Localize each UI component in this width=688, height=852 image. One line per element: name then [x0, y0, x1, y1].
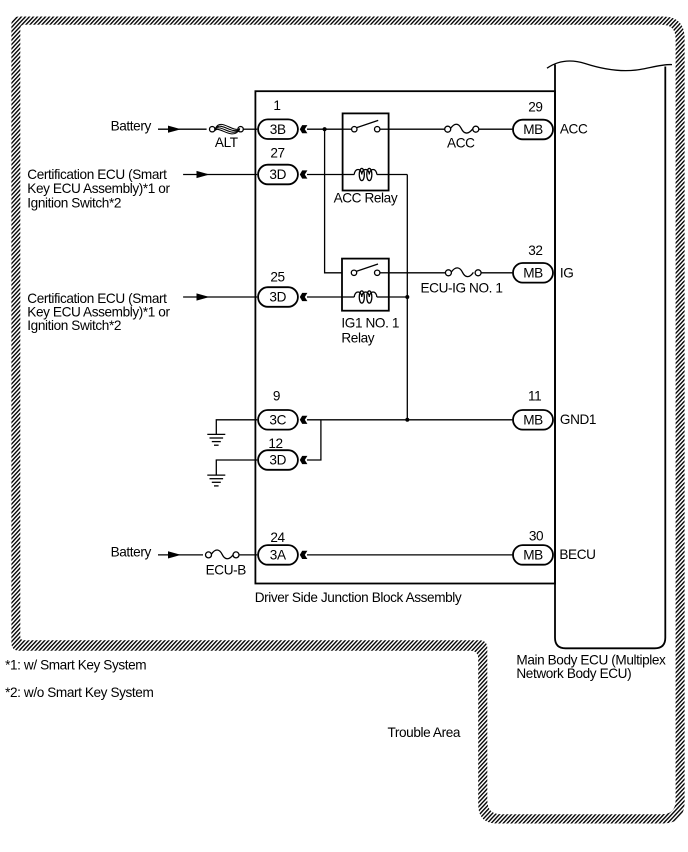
- wire IG1 coil to bus: [389, 296, 408, 298]
- svg-text:9: 9: [273, 388, 280, 403]
- label ALT: [215, 135, 238, 150]
- net label IG: [560, 265, 574, 280]
- svg-text:3B: 3B: [270, 122, 286, 137]
- svg-text:Ignition Switch*2: Ignition Switch*2: [27, 195, 121, 210]
- wire fuse to MB32: [481, 272, 512, 274]
- pin 12: [268, 436, 282, 451]
- connector 3A (24): [258, 545, 298, 565]
- svg-text:3C: 3C: [269, 413, 286, 428]
- svg-text:Trouble Area: Trouble Area: [388, 725, 461, 740]
- ACC relay coil: [343, 168, 389, 180]
- svg-text:3D: 3D: [269, 290, 286, 305]
- Main Body ECU box (wavy top, rounded bottom): [547, 61, 672, 648]
- svg-text:Battery: Battery: [111, 545, 152, 560]
- pin 27: [270, 146, 284, 161]
- svg-text:1: 1: [273, 98, 280, 113]
- label IG1 NO. 1 Relay: [341, 316, 399, 346]
- wire cert1 to 3D: [183, 174, 257, 176]
- fuse ECU-IG NO. 1: [445, 268, 481, 277]
- label Battery (row 6): [111, 545, 152, 560]
- arrow on cert1 wire: [197, 171, 210, 178]
- junction node coil/bus: [405, 295, 409, 299]
- wire 3D25 to IG1 coil: [307, 296, 342, 298]
- fuse ECU-B: [206, 550, 240, 559]
- pin 11: [528, 388, 541, 403]
- relay ACC Relay: [343, 113, 389, 190]
- label Certification ECU block 2: [27, 291, 170, 333]
- net label BECU: [559, 547, 595, 562]
- connector 3C (9): [258, 410, 298, 430]
- note *2: [5, 685, 153, 700]
- pin 30: [529, 529, 544, 544]
- svg-text:Driver Side Junction Block Ass: Driver Side Junction Block Assembly: [255, 590, 462, 605]
- svg-text:MB: MB: [523, 122, 543, 137]
- svg-text:Certification ECU (Smart: Certification ECU (Smart: [27, 167, 167, 182]
- svg-text:ACC Relay: ACC Relay: [334, 190, 398, 205]
- pin 1: [273, 98, 280, 113]
- svg-text:29: 29: [528, 100, 542, 115]
- wire Battery to ALT: [158, 128, 207, 130]
- svg-text:Key ECU Assembly)*1 or: Key ECU Assembly)*1 or: [27, 181, 170, 196]
- label ACC (fuse): [447, 136, 475, 151]
- arrowhead into 3C: [300, 416, 308, 424]
- wire branch to 3D12: [307, 420, 321, 460]
- junction node on 3B wire: [323, 127, 327, 131]
- svg-text:MB: MB: [523, 548, 543, 563]
- label ECU-IG NO. 1: [421, 281, 503, 296]
- connector 3D (12): [258, 450, 298, 470]
- fuse ACC: [445, 124, 479, 133]
- arrowhead into 3D27: [300, 170, 308, 178]
- pin 32: [528, 243, 542, 258]
- svg-text:MB: MB: [523, 266, 543, 281]
- svg-text:3D: 3D: [269, 453, 286, 468]
- label ECU-B: [206, 563, 247, 578]
- fusible link ALT: [210, 124, 244, 134]
- svg-text:BECU: BECU: [559, 547, 595, 562]
- svg-text:IG: IG: [560, 265, 574, 280]
- wire IG1 switch to ECU-IG fuse: [389, 272, 446, 274]
- svg-text:ACC: ACC: [447, 136, 475, 151]
- wire ACC coil to vertical bus: [389, 174, 408, 176]
- svg-text:*2: w/o Smart Key System: *2: w/o Smart Key System: [5, 685, 153, 700]
- connector 3B: [258, 119, 298, 139]
- pin 29: [528, 100, 542, 115]
- wire ALT to 3B: [243, 128, 257, 130]
- svg-text:Network Body ECU): Network Body ECU): [516, 666, 631, 681]
- wire 3B node down to IG1 switch: [325, 129, 342, 273]
- connector MB (29): [513, 120, 553, 140]
- label Main Body ECU: [516, 652, 666, 681]
- pin 9: [273, 388, 280, 403]
- label Certification ECU block 1: [27, 167, 170, 211]
- ground symbol 2: [207, 460, 257, 486]
- connector MB (30): [513, 545, 553, 565]
- connector 3D (25): [258, 287, 298, 307]
- wire cert2 to 3D25: [183, 296, 257, 298]
- svg-text:11: 11: [528, 388, 541, 403]
- arrowhead into 3B: [300, 125, 308, 133]
- svg-text:3D: 3D: [269, 167, 286, 182]
- svg-text:*1: w/ Smart Key System: *1: w/ Smart Key System: [5, 658, 146, 673]
- arrowhead into 3A: [300, 551, 308, 559]
- wire ECU-B to 3A: [239, 554, 257, 556]
- wire 3D27 to ACC relay coil: [307, 174, 343, 176]
- svg-text:Ignition Switch*2: Ignition Switch*2: [27, 318, 121, 333]
- arrow on Battery wire: [168, 126, 181, 133]
- svg-text:24: 24: [270, 530, 285, 545]
- svg-text:ECU-B: ECU-B: [206, 563, 247, 578]
- IG1 relay switch: [351, 264, 389, 275]
- net label GND1: [560, 412, 596, 427]
- Driver Side Junction Block Assembly box: [255, 91, 555, 583]
- IG1 relay coil: [342, 291, 389, 303]
- note *1: [5, 658, 146, 673]
- wire ACC fuse to MB29: [479, 128, 513, 130]
- svg-text:12: 12: [268, 436, 282, 451]
- svg-text:GND1: GND1: [560, 412, 596, 427]
- arrowhead into 3D12: [300, 456, 308, 464]
- label Driver Side Junction Block Assembly: [255, 590, 462, 605]
- arrow on cert2 wire: [197, 293, 210, 300]
- label Trouble Area: [388, 725, 461, 740]
- pin 24: [270, 530, 285, 545]
- arrow on Battery wire 2: [168, 551, 181, 558]
- pin 25: [270, 269, 284, 284]
- svg-text:ACC: ACC: [560, 122, 588, 137]
- wire Battery to ECU-B: [158, 554, 203, 556]
- svg-text:Relay: Relay: [341, 330, 374, 345]
- arrowhead into 3D25: [300, 293, 308, 301]
- svg-text:27: 27: [270, 146, 284, 161]
- connector MB (32): [513, 263, 553, 283]
- label Battery (row 1): [111, 119, 152, 134]
- connector MB (11): [513, 410, 553, 430]
- connector 3D (27): [258, 165, 298, 185]
- svg-text:32: 32: [528, 243, 542, 258]
- junction node bus/GND1: [405, 418, 409, 422]
- svg-text:IG1 NO. 1: IG1 NO. 1: [341, 316, 399, 331]
- ground symbol 1: [207, 420, 257, 445]
- relay IG1 NO. 1 Relay: [342, 259, 389, 311]
- svg-text:30: 30: [529, 529, 544, 544]
- svg-text:ECU-IG NO. 1: ECU-IG NO. 1: [421, 281, 503, 296]
- wire GND1 main: [307, 419, 512, 421]
- svg-text:3A: 3A: [270, 548, 287, 563]
- svg-text:ALT: ALT: [215, 135, 238, 150]
- net label ACC: [560, 122, 588, 137]
- wire ACC relay to ACC fuse: [389, 128, 445, 130]
- svg-text:Battery: Battery: [111, 119, 152, 134]
- svg-text:25: 25: [270, 269, 284, 284]
- wire 3B to ACC relay: [307, 128, 343, 130]
- ACC relay switch: [343, 120, 389, 131]
- wire vertical bus x407: [406, 175, 408, 420]
- wire 3A to MB30: [307, 554, 512, 556]
- label ACC Relay: [334, 190, 398, 205]
- svg-text:MB: MB: [523, 413, 543, 428]
- svg-text:Key ECU Assembly)*1 or: Key ECU Assembly)*1 or: [27, 304, 170, 319]
